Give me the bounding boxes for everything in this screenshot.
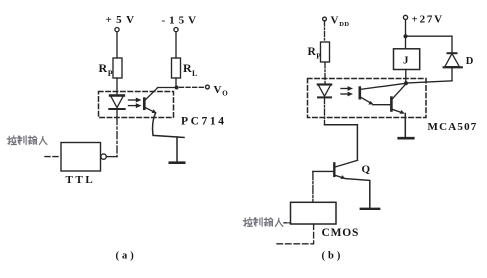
dash-dot wire LED cathode down (b) (324, 98, 326, 125)
supply terminal -15V (174, 28, 178, 32)
light coupling arrows (b) (341, 86, 353, 96)
wire +27V down to relay J (405, 20, 407, 49)
svg-text:DD: DD (339, 21, 349, 28)
label control input (b) (243, 218, 283, 227)
svg-text:+27V: +27V (412, 14, 444, 26)
label RP (b) (308, 46, 322, 61)
optocoupler U1 dashed body PC714 (99, 92, 174, 118)
wire collector to junction (158, 87, 177, 89)
supply terminal +5V (115, 28, 119, 32)
wire T2 emitter to ground (b) (404, 114, 406, 138)
svg-text:MCA507: MCA507 (428, 121, 478, 133)
label VDD (331, 14, 350, 28)
svg-text:D: D (466, 56, 474, 67)
svg-text:O: O (222, 89, 228, 97)
wire RL to node Vo junction (175, 78, 177, 88)
dash link control label to CMOS (284, 222, 291, 224)
resistor RL (172, 58, 181, 78)
svg-text:V: V (214, 84, 222, 96)
svg-text:+5V: +5V (106, 14, 139, 26)
dash-dot wire Q base to CMOS (312, 171, 314, 202)
svg-text:PC714: PC714 (181, 116, 227, 128)
svg-text:TTL: TTL (66, 174, 96, 186)
junction dot collectors (b) (404, 81, 408, 85)
wire cathode run to Q collector (325, 125, 358, 161)
junction dot node Vo (175, 86, 179, 90)
LED D1 (a) (109, 96, 124, 118)
LED D2 (b) (318, 85, 331, 98)
wire +27V rail to diode branch (406, 36, 453, 53)
dash-dot wire VDD to RP (324, 21, 326, 42)
svg-text:Q: Q (362, 164, 371, 176)
dashed input wire TTL (45, 156, 61, 158)
svg-text:V: V (331, 14, 339, 26)
svg-text:R: R (308, 46, 317, 58)
gate CMOS box (291, 202, 337, 224)
optocoupler U2 dashed body MCA507 (308, 79, 427, 118)
label Vo (214, 84, 229, 98)
diode D (444, 53, 462, 81)
transistor Q (313, 160, 358, 179)
inverter bubble TTL output (101, 154, 106, 159)
relay coil J (394, 49, 420, 70)
wire RP to LED anode (116, 78, 118, 96)
label RL (183, 61, 197, 78)
wire TTL output to cathode line (106, 156, 117, 158)
light coupling arrows (a) (129, 98, 142, 109)
dashed tap wire to Vo terminal (180, 86, 204, 88)
svg-text:P: P (316, 51, 321, 60)
svg-text:J: J (403, 55, 409, 67)
output terminal Vo (206, 85, 210, 89)
svg-text:L: L (192, 69, 197, 78)
svg-text:R: R (99, 61, 108, 75)
wire Q emitter to ground (345, 179, 369, 208)
resistor RP (b) (321, 42, 330, 62)
wire diode to collector junction (406, 81, 452, 83)
label RP (99, 61, 113, 78)
supply terminal +27V (403, 15, 407, 19)
wire +5V to RP (116, 32, 118, 58)
svg-text:R: R (183, 61, 192, 75)
svg-text:-15V: -15V (162, 14, 201, 26)
svg-text:CMOS: CMOS (322, 227, 360, 239)
ground (a) (170, 161, 184, 164)
supply terminal VDD (323, 17, 327, 21)
wire emitter (a) down to ground run (153, 113, 184, 137)
svg-text:(a): (a) (116, 251, 137, 262)
junction dot +27V rail (404, 34, 408, 38)
ground T2 (b) (399, 137, 414, 140)
resistor RP (a) (113, 58, 122, 78)
phototransistor Q1 (a) (144, 88, 157, 114)
darlington transistor T2 (b) (391, 84, 406, 114)
wire -15V to RL (175, 32, 177, 58)
dash-dot wire RP to LED (b) (324, 62, 326, 85)
ground Q (361, 208, 379, 210)
dash-dot wire LED cathode to TTL output (116, 118, 118, 157)
gate TTL box (61, 143, 101, 172)
svg-text:(b): (b) (322, 251, 344, 262)
wire relay J to collector junction (405, 70, 407, 84)
dashed control input wire (b) (277, 224, 314, 244)
label control input (a) (7, 136, 47, 145)
darlington transistor T1 (b) (360, 83, 406, 104)
wire ground drop (a) (176, 137, 178, 162)
svg-text:P: P (108, 69, 113, 78)
